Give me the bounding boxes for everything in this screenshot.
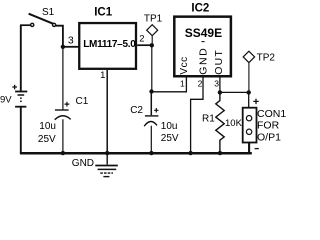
- svg-text:GND: GND: [197, 47, 209, 75]
- svg-text:R1: R1: [202, 114, 215, 125]
- capacitor C1 top wire: [62, 47, 64, 110]
- svg-text:FOR: FOR: [257, 120, 280, 132]
- svg-text:SS49E: SS49E: [185, 26, 222, 40]
- battery B1 long plate bottom: [15, 106, 26, 108]
- svg-text:IC1: IC1: [94, 6, 113, 18]
- capacitor C2 top wire: [150, 92, 152, 116]
- test point TP1 diamond: [147, 25, 158, 36]
- switch S1 right contact: [53, 23, 56, 26]
- wire TP2 stem to output node: [248, 63, 250, 93]
- ground symbol bar 2: [98, 168, 117, 170]
- svg-text:1: 1: [180, 79, 185, 89]
- resistor R1 zigzag: [216, 92, 224, 153]
- battery B1 plus sign: [12, 85, 17, 90]
- node TP1 junction dot: [150, 43, 154, 47]
- connector CON1 pin circle top: [246, 116, 251, 121]
- wire IC1 pin 2 to TP1 node: [137, 44, 152, 46]
- battery B1 short plate: [18, 94, 25, 96]
- wire CON1 to ground rail: [248, 143, 250, 153]
- ground symbol bar 3: [100, 172, 113, 174]
- sensor IC2 box: [174, 17, 231, 77]
- connector CON1 minus sign: [255, 148, 259, 150]
- node C2 junction dot: [149, 89, 153, 93]
- svg-text:IC2: IC2: [191, 3, 209, 15]
- capacitor C2 curved plate: [144, 121, 157, 126]
- connector CON1 box: [243, 108, 257, 143]
- svg-text:3: 3: [214, 79, 219, 89]
- capacitor C2 polarity plus sign: [154, 108, 158, 113]
- svg-text:Vcc: Vcc: [179, 56, 190, 74]
- node A junction dot: [61, 45, 65, 49]
- svg-text:10u: 10u: [39, 121, 56, 132]
- ground symbol bar 4: [103, 176, 109, 178]
- svg-text:9V: 9V: [0, 94, 12, 105]
- stray mark above GND pin label: [202, 41, 205, 43]
- svg-text:C2: C2: [130, 105, 143, 116]
- capacitor C2 plus plate: [145, 115, 159, 117]
- wire IC2 pin 1 to C2 node: [152, 77, 187, 92]
- svg-text:25V: 25V: [161, 133, 179, 144]
- svg-text:25V: 25V: [38, 134, 56, 145]
- battery B1 cell dots: [20, 97, 22, 99]
- svg-text:C1: C1: [76, 96, 89, 107]
- svg-text:2: 2: [198, 79, 203, 89]
- regulator IC1 box: [79, 23, 136, 69]
- capacitor C1 bottom wire: [62, 119, 64, 153]
- svg-text:10u: 10u: [161, 121, 178, 132]
- capacitor C2 bottom wire: [150, 126, 152, 153]
- wire output node to TP2 node: [220, 91, 249, 93]
- svg-text:2: 2: [139, 33, 144, 44]
- wire IC2 pin 3 to output node: [219, 77, 221, 93]
- svg-text:TP1: TP1: [144, 13, 163, 24]
- wire node A to IC1 pin 3: [63, 46, 79, 48]
- wire switch to node A: [56, 26, 63, 47]
- svg-text:OUT: OUT: [213, 49, 225, 75]
- svg-text:1: 1: [100, 70, 105, 81]
- svg-text:S1: S1: [42, 7, 55, 18]
- wire battery positive branch (top vertical x=20.8): [20, 25, 22, 91]
- wire TP2 node to CON1: [248, 92, 250, 107]
- wire ground rail: [20, 152, 252, 155]
- wire IC1 pin 1 to ground rail: [106, 70, 108, 153]
- svg-text:TP2: TP2: [257, 52, 276, 63]
- svg-text:GND: GND: [72, 158, 94, 169]
- node rail-IC2gnd junction dot: [188, 151, 192, 155]
- svg-text:10K: 10K: [225, 118, 243, 129]
- battery B1 long plate top: [15, 91, 27, 93]
- ground symbol stem: [106, 153, 108, 164]
- node rail-R1 junction dot: [218, 151, 222, 155]
- wire battery negative branch: [20, 108, 22, 154]
- ground symbol bar 1: [95, 165, 118, 167]
- wire TP1 stem: [151, 36, 153, 46]
- node rail-C1 junction dot: [61, 151, 65, 155]
- capacitor C1 curved plate: [55, 116, 71, 120]
- switch S1 left contact: [31, 23, 34, 26]
- wire TP1 node down to C2 node: [151, 45, 153, 91]
- node TP2 junction dot: [247, 90, 251, 94]
- node rail-IC1pin1 junction dot: [105, 151, 109, 155]
- wire IC2 pin 2 to ground rail: [191, 77, 203, 154]
- svg-text:LM1117–5.0: LM1117–5.0: [83, 39, 136, 50]
- node rail-C2 junction dot: [149, 151, 153, 155]
- svg-text:3: 3: [68, 35, 74, 47]
- capacitor C1 plus plate: [55, 109, 69, 111]
- connector CON1 plus sign: [253, 99, 258, 104]
- connector CON1 pin circle bottom: [246, 129, 251, 134]
- switch S1 lever: [29, 14, 53, 24]
- svg-text:CON1: CON1: [257, 108, 286, 120]
- node output junction dot: [218, 90, 222, 94]
- svg-text:O/P1: O/P1: [257, 131, 281, 143]
- capacitor C1 polarity plus sign: [65, 102, 70, 107]
- wire switch left horizontal: [20, 24, 31, 26]
- test point TP2 diamond: [243, 51, 254, 62]
